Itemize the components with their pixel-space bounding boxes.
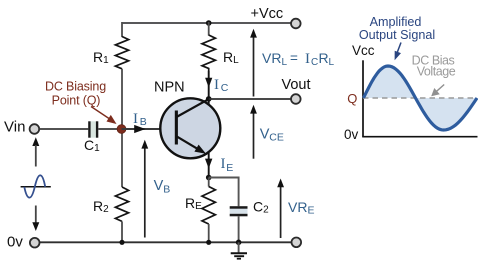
label RE bbox=[185, 195, 202, 212]
label DC Biasing Point (Q) bbox=[45, 80, 106, 108]
svg-text:C: C bbox=[311, 57, 318, 68]
arrow IE bbox=[205, 159, 212, 169]
wire C1 to base node bbox=[98, 128, 121, 130]
svg-text:RL: RL bbox=[223, 49, 239, 66]
label IE bbox=[221, 156, 234, 174]
node bottom R2 bbox=[119, 240, 124, 245]
wire Vin to C1 bbox=[40, 128, 89, 130]
node bottom RE bbox=[206, 240, 211, 245]
svg-text:VRE: VRE bbox=[288, 199, 314, 217]
terminal Vout bbox=[291, 94, 301, 104]
svg-text:Point (Q): Point (Q) bbox=[52, 94, 101, 108]
graph sine fill bbox=[364, 66, 478, 130]
terminal Vin bbox=[30, 124, 40, 134]
label NPN bbox=[154, 80, 185, 96]
transistor collector lead bbox=[177, 99, 209, 117]
graph dashed Q line bbox=[363, 97, 477, 99]
label IB bbox=[133, 111, 147, 128]
arrow IC bbox=[205, 78, 212, 88]
resistor RE bbox=[202, 187, 215, 225]
wire RE bottom bbox=[208, 224, 210, 242]
label VRE bbox=[288, 199, 314, 217]
svg-text:=: = bbox=[290, 51, 298, 66]
label R1 bbox=[93, 49, 109, 66]
label IC bbox=[214, 77, 229, 94]
svg-text:V: V bbox=[154, 178, 164, 194]
terminal +Vcc bbox=[291, 19, 301, 29]
label Vin bbox=[4, 119, 25, 136]
svg-text:I: I bbox=[133, 111, 138, 127]
wire left branch middle bbox=[121, 69, 123, 187]
wire base bbox=[122, 128, 177, 130]
svg-text:Vcc: Vcc bbox=[352, 43, 375, 58]
svg-text:L: L bbox=[329, 57, 335, 68]
svg-text:Vin: Vin bbox=[4, 119, 25, 136]
label DC Bias Voltage bbox=[412, 53, 456, 78]
arrow VRE bbox=[277, 179, 284, 239]
svg-text:CE: CE bbox=[269, 132, 284, 144]
label Vout bbox=[282, 77, 311, 93]
label VRL = IC RL bbox=[262, 50, 335, 68]
svg-text:Q: Q bbox=[347, 91, 357, 106]
svg-text:Voltage: Voltage bbox=[417, 65, 456, 79]
wire collector top bbox=[208, 22, 210, 36]
transistor base bar bbox=[175, 111, 178, 145]
svg-text:DC Biasing: DC Biasing bbox=[45, 80, 106, 94]
node collector junction bbox=[206, 96, 212, 102]
resistor R1 bbox=[115, 37, 128, 69]
svg-text:NPN: NPN bbox=[154, 80, 185, 96]
svg-text:C1: C1 bbox=[84, 137, 100, 154]
input signal lower arrow bbox=[32, 206, 39, 232]
node top junction bbox=[206, 20, 212, 26]
wire collector lower bbox=[208, 71, 210, 105]
svg-text:C2: C2 bbox=[253, 199, 269, 216]
arrow to Q point (dark red) bbox=[91, 107, 117, 125]
wire left branch upper bbox=[121, 22, 123, 37]
node Q bias point (dark red) bbox=[117, 125, 126, 134]
svg-text:0v: 0v bbox=[344, 127, 359, 142]
wire Vout bbox=[209, 98, 291, 100]
svg-text:Vout: Vout bbox=[282, 77, 311, 93]
svg-text:L: L bbox=[282, 57, 288, 68]
label Q graph bbox=[347, 91, 357, 106]
arrow VRL bbox=[250, 29, 257, 97]
ground bbox=[231, 242, 247, 258]
transistor emitter lead with arrow bbox=[177, 136, 207, 153]
terminal bottom right bbox=[292, 238, 302, 248]
input sine symbol bbox=[21, 175, 51, 197]
label Vcc graph bbox=[352, 43, 375, 58]
arrow VB bbox=[141, 140, 148, 238]
wire left branch lower bbox=[121, 221, 123, 242]
wire emitter to RE bbox=[208, 178, 210, 187]
svg-text:C: C bbox=[221, 82, 229, 94]
wire top rail bbox=[122, 22, 292, 24]
svg-text:+Vcc: +Vcc bbox=[251, 6, 284, 22]
svg-text:0v: 0v bbox=[7, 234, 23, 251]
svg-text:E: E bbox=[226, 162, 233, 174]
node bottom C2 bbox=[236, 240, 242, 246]
svg-text:R: R bbox=[319, 50, 329, 66]
wire emitter to C2 bbox=[209, 178, 239, 207]
graph axis bbox=[362, 60, 477, 136]
capacitor C1 bbox=[88, 121, 98, 137]
svg-text:RE: RE bbox=[185, 195, 202, 212]
wire C2 bottom bbox=[238, 216, 240, 242]
label 0v bbox=[7, 234, 23, 251]
input signal upper arrow bbox=[32, 137, 39, 166]
label C2 bbox=[253, 199, 269, 216]
svg-text:R1: R1 bbox=[93, 49, 109, 66]
node emitter junction bbox=[206, 175, 212, 181]
resistor R2 bbox=[115, 187, 128, 221]
terminal 0v bbox=[30, 238, 40, 248]
svg-text:B: B bbox=[163, 183, 170, 195]
svg-text:VR: VR bbox=[262, 50, 281, 66]
wire emitter bbox=[208, 153, 210, 178]
label VB bbox=[154, 178, 171, 195]
transistor Q1 circle bbox=[160, 98, 220, 158]
svg-text:I: I bbox=[221, 156, 226, 172]
label +Vcc bbox=[251, 6, 284, 22]
label R2 bbox=[93, 198, 109, 215]
label 0v graph bbox=[344, 127, 359, 142]
svg-text:R2: R2 bbox=[93, 198, 109, 215]
label RL bbox=[223, 49, 239, 66]
wire bottom rail bbox=[40, 241, 292, 243]
svg-text:V: V bbox=[260, 127, 270, 143]
arrow IB bbox=[134, 125, 145, 133]
resistor RL bbox=[202, 35, 215, 71]
label C1 bbox=[84, 137, 100, 154]
capacitor C2 bbox=[230, 206, 248, 216]
svg-text:I: I bbox=[305, 51, 310, 67]
svg-text:B: B bbox=[140, 116, 147, 128]
label VCE bbox=[260, 127, 284, 144]
label Amplified Output Signal bbox=[359, 15, 435, 42]
svg-text:Output Signal: Output Signal bbox=[359, 28, 435, 42]
svg-text:I: I bbox=[214, 77, 219, 93]
arrow amplified signal (blue) bbox=[395, 43, 401, 61]
arrow VCE bbox=[250, 105, 257, 159]
arrow DC bias (gray) bbox=[431, 85, 444, 97]
graph sine curve bbox=[364, 66, 478, 130]
